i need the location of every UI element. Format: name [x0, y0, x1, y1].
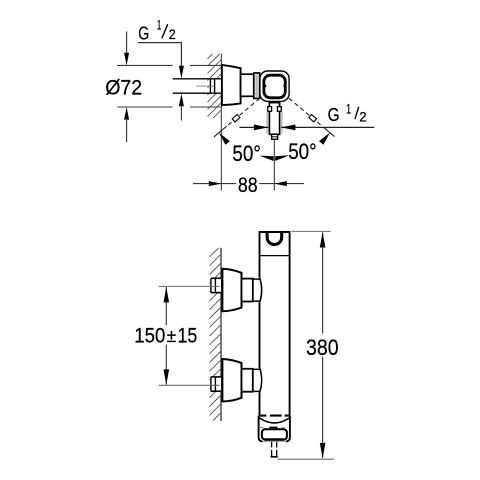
lever axis extension line — [273, 140, 275, 191]
lever side shadow lines — [266, 112, 268, 134]
50deg arc bowtie arrows at lever axis — [259, 156, 273, 161]
body cap separation line — [260, 255, 290, 257]
svg-text:G: G — [328, 104, 340, 125]
dimension 380 line and arrows — [320, 232, 326, 458]
svg-text:2: 2 — [359, 109, 367, 125]
lower union dome inside body — [260, 368, 262, 393]
shower hook cutout — [267, 233, 282, 245]
svg-text:Ø72: Ø72 — [105, 75, 142, 99]
grip cap bottom edge — [259, 415, 291, 417]
dimension 150+-15 line and arrows — [164, 287, 170, 385]
label G 1/2 top-left — [138, 18, 175, 44]
wall hatching (top view) — [208, 54, 222, 118]
svg-text:15: 15 — [178, 323, 198, 347]
50deg arc arrow at left swing line — [219, 133, 230, 145]
svg-text:50°: 50° — [288, 139, 317, 164]
svg-text:2: 2 — [169, 27, 176, 42]
lever tip outlet — [272, 134, 278, 139]
upper union dome inside body — [260, 278, 262, 303]
hose outlet stub — [271, 442, 278, 457]
svg-text:50°: 50° — [232, 141, 261, 166]
upper supply pipe behind wall (side view) — [210, 278, 221, 292]
tick on left swing line — [232, 114, 240, 121]
svg-text:G: G — [138, 22, 149, 43]
150 dim extension/centre line upper — [159, 285, 220, 287]
handle rounded-square outline (top view) — [260, 71, 289, 101]
grip smile arc — [259, 418, 290, 423]
wall (top view) — [220, 54, 222, 191]
escutcheon cone (top view) — [222, 65, 241, 105]
upper union nut — [242, 279, 253, 302]
lower supply pipe behind wall (side view) — [210, 377, 221, 391]
handle base ring (top view) — [254, 73, 260, 98]
mixer body (side view) — [259, 232, 291, 415]
dashed swing line right 50deg — [289, 98, 323, 127]
swing range arrow line with G1/2 underline — [239, 126, 268, 128]
supply pipe stub behind wall (top view) — [173, 79, 222, 93]
150 dim extension/centre line lower — [159, 384, 220, 386]
svg-text:1: 1 — [346, 100, 351, 116]
lower S-union escutcheon cone (side view) — [222, 359, 241, 401]
svg-text:380: 380 — [306, 335, 339, 360]
lever collar ears — [268, 107, 272, 112]
tick on right swing line — [309, 114, 317, 121]
svg-text:88: 88 — [238, 173, 258, 197]
lever shaft (top view) — [269, 103, 279, 135]
dimension 88: lines and arrows — [193, 181, 304, 186]
ring chrome shading — [255, 75, 257, 97]
label G 1/2 right — [328, 100, 367, 125]
grip outer shell sides — [259, 416, 263, 442]
grip seam dashes — [260, 427, 285, 429]
svg-text:1: 1 — [157, 18, 161, 33]
swing arrow right head (points left at lever) — [281, 125, 296, 131]
wall (side view) — [220, 248, 222, 421]
dashed swing line left 50deg — [227, 98, 260, 126]
wall hatching (side view) — [210, 248, 222, 421]
dimension diameter 72: extension lines — [117, 65, 221, 107]
leader G1/2 top: underline, drop line and arrows at pipe — [138, 43, 184, 121]
swing arrow left head (points right at lever) — [254, 125, 269, 131]
50deg arc arrow at right swing line — [319, 133, 330, 145]
svg-text:150: 150 — [134, 323, 165, 347]
lower union nut — [242, 369, 253, 392]
dimension 380 extension lines — [292, 230, 331, 232]
svg-text:±: ± — [167, 326, 177, 346]
lower union collar — [253, 368, 260, 370]
handle side pivot dots — [264, 85, 267, 88]
grip inner face — [262, 429, 287, 439]
handle inner face (top view) — [264, 75, 285, 98]
valve neck (top view) — [241, 74, 254, 96]
upper S-union escutcheon cone (side view) — [222, 269, 241, 311]
upper union collar — [253, 278, 260, 280]
dimension diameter 72: arrows — [124, 32, 129, 143]
